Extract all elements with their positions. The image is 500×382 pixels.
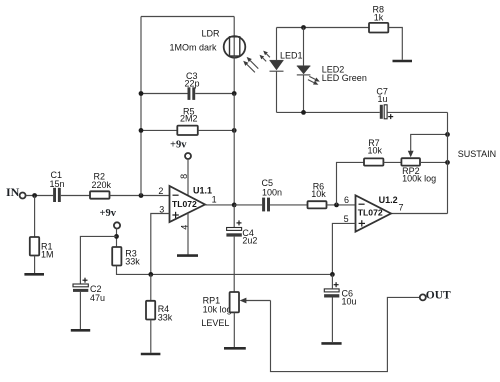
- wire top to LDR: [233, 17, 235, 38]
- svg-text:2M2: 2M2: [180, 114, 198, 124]
- wire feedback rail up: [337, 162, 365, 205]
- svg-text:2: 2: [158, 186, 163, 196]
- node C3 right: [232, 91, 237, 96]
- IN terminal: [6, 185, 26, 199]
- LDR light arrows: [243, 57, 258, 73]
- svg-text:LED Green: LED Green: [322, 73, 367, 83]
- resistor R7: [364, 138, 383, 166]
- svg-text:22p: 22p: [185, 79, 200, 89]
- wire R5 right: [198, 129, 234, 131]
- wire C3 right: [195, 93, 234, 95]
- ground under R4: [141, 353, 161, 356]
- LED1: [270, 28, 303, 113]
- ground under U1.1: [177, 254, 198, 257]
- resistor R8: [369, 5, 388, 33]
- wire pin7 output: [391, 213, 448, 215]
- svg-text:C5: C5: [262, 178, 274, 188]
- capacitor C6: [324, 282, 356, 306]
- wire C3 left: [141, 93, 188, 95]
- capacitor C2: [73, 278, 105, 303]
- wire C6 down: [331, 274, 333, 289]
- wire IN to C1: [26, 195, 54, 197]
- svg-text:7: 7: [399, 203, 404, 213]
- wire C6 to ground: [331, 298, 333, 343]
- node input junction: [32, 193, 37, 198]
- svg-text:1M: 1M: [41, 250, 54, 260]
- svg-text:1k: 1k: [374, 12, 384, 22]
- svg-text:100n: 100n: [262, 188, 282, 198]
- RP1 wiper arrow: [240, 298, 271, 304]
- resistor R6: [308, 182, 327, 209]
- wire output to C5: [234, 204, 262, 206]
- wire to C2: [80, 236, 116, 283]
- svg-text:33k: 33k: [158, 312, 173, 322]
- svg-text:SUSTAIN: SUSTAIN: [458, 149, 496, 159]
- resistor R2: [90, 172, 112, 199]
- LED1 emission arrows: [260, 51, 270, 62]
- wire LDR to C3 rail: [233, 56, 235, 94]
- svg-text:10k: 10k: [368, 145, 383, 155]
- wire C4 to RP1: [233, 237, 235, 292]
- svg-text:5: 5: [344, 214, 349, 224]
- svg-text:LEVEL: LEVEL: [201, 318, 229, 328]
- ground under C6: [321, 342, 341, 345]
- wire left rail: [140, 17, 142, 196]
- svg-text:3: 3: [159, 204, 164, 214]
- node C3 left: [139, 91, 144, 96]
- svg-text:2u2: 2u2: [242, 236, 257, 246]
- node pin2 / left rail: [139, 193, 144, 198]
- ground under R1: [24, 273, 44, 276]
- wire R2 to U1.1 pin2: [110, 195, 170, 197]
- ground under RP1: [224, 347, 246, 350]
- capacitor C3: [185, 71, 200, 100]
- node LED2 bottom: [301, 110, 306, 115]
- ground under C2: [71, 329, 90, 332]
- wire R5 left: [141, 129, 177, 131]
- node wiper junction: [445, 132, 450, 137]
- svg-text:1MOm dark: 1MOm dark: [170, 43, 218, 53]
- svg-text:LDR: LDR: [202, 29, 221, 39]
- wire R3 to bias rail: [117, 266, 333, 275]
- wire C7 to right rail: [388, 111, 448, 113]
- LED2 emission arrows: [308, 76, 320, 84]
- svg-text:8: 8: [179, 174, 189, 179]
- op-amp U1.2: [356, 195, 398, 232]
- capacitor C4: [226, 220, 257, 245]
- capacitor C1: [50, 170, 65, 202]
- svg-text:TL072: TL072: [172, 199, 197, 209]
- ground under R8: [393, 60, 413, 63]
- svg-text:10u: 10u: [342, 296, 357, 306]
- wire pin5: [332, 223, 355, 274]
- +9v supply U1.1: [170, 140, 191, 160]
- svg-text:1: 1: [212, 195, 217, 205]
- wire pin3: [151, 214, 170, 275]
- svg-text:+9v: +9v: [100, 208, 117, 219]
- svg-text:U1.2: U1.2: [379, 195, 398, 205]
- wire pin8: [187, 159, 189, 196]
- wire R6 to pin6: [327, 204, 356, 206]
- svg-text:LED1: LED1: [280, 50, 303, 60]
- node bias C6 junction: [330, 272, 335, 277]
- RP2 wiper arrow: [408, 134, 448, 157]
- wire R8 to ground: [389, 28, 403, 60]
- svg-text:100k log: 100k log: [402, 174, 436, 184]
- svg-text:U1.1: U1.1: [193, 186, 212, 196]
- wire right rail: [233, 94, 235, 205]
- node pin6 junction: [334, 203, 339, 208]
- svg-text:33k: 33k: [125, 257, 140, 267]
- node output junction: [232, 203, 237, 208]
- wire R1 down: [34, 196, 36, 238]
- wire +9v to R3: [116, 229, 118, 248]
- resistor R1: [30, 237, 54, 260]
- capacitor C5: [262, 178, 283, 211]
- wire C1 to R2: [61, 195, 90, 197]
- potentiometer RP2: [401, 158, 436, 183]
- wire R7 to RP2: [383, 161, 401, 163]
- potentiometer RP1: [201, 292, 239, 328]
- wire wiper to OUT: [271, 297, 420, 371]
- svg-text:47u: 47u: [90, 293, 105, 303]
- wire R4 top: [150, 274, 152, 300]
- svg-text:15n: 15n: [50, 179, 65, 189]
- wire right rail: [447, 112, 449, 213]
- node LED2 top: [301, 25, 306, 30]
- wire RP2 to right rail: [420, 161, 448, 163]
- svg-text:10k log: 10k log: [203, 305, 232, 315]
- svg-text:10k: 10k: [311, 189, 326, 199]
- OUT terminal: [420, 289, 451, 301]
- svg-text:1u: 1u: [378, 94, 388, 104]
- +9v supply R3: [100, 208, 121, 228]
- svg-text:6: 6: [344, 195, 349, 205]
- wire top: [141, 16, 234, 18]
- svg-text:IN: IN: [6, 185, 20, 199]
- node R5 left: [139, 128, 144, 133]
- resistor R4: [146, 301, 173, 323]
- LDR: [170, 29, 246, 58]
- node R3 top / C2 branch: [114, 234, 119, 239]
- wire LED bottom: [277, 111, 380, 113]
- svg-text:220k: 220k: [92, 180, 112, 190]
- node RP2 right: [445, 160, 450, 165]
- wire C2 to ground: [79, 292, 81, 329]
- wire R1 to ground: [34, 256, 36, 274]
- wire R4 to ground: [150, 320, 152, 353]
- capacitor C7: [376, 86, 393, 119]
- resistor R3: [112, 247, 140, 267]
- LED2: [297, 28, 367, 113]
- svg-text:OUT: OUT: [426, 289, 451, 301]
- wire RP1 to ground: [233, 312, 235, 347]
- wire pin4 to ground: [187, 213, 189, 255]
- wire U1.1 output: [205, 204, 234, 206]
- op-amp U1.1: [170, 186, 213, 223]
- resistor R5: [177, 107, 198, 136]
- node R4 top: [148, 272, 153, 277]
- wire output to C4/RP1: [233, 205, 235, 228]
- wire LED top: [277, 27, 370, 29]
- svg-text:+9v: +9v: [170, 140, 187, 151]
- svg-text:TL072: TL072: [358, 208, 383, 218]
- node R5 right: [232, 128, 237, 133]
- wire C5 to R6: [270, 204, 308, 206]
